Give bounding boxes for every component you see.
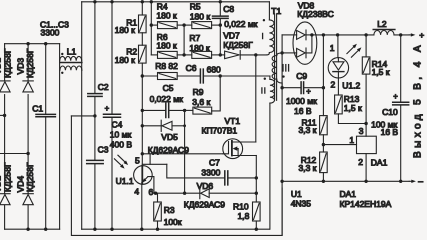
wire DA1 pin1: [323, 144, 356, 146]
label C9 1000мк 16В: [286, 71, 317, 116]
svg-text:1: 1: [330, 43, 335, 53]
capacitor C6: [200, 69, 222, 83]
label R13 1,5к: [344, 94, 362, 113]
resistor R5: [192, 22, 222, 29]
capacitor C9: [280, 82, 325, 94]
svg-text:R3: R3: [164, 205, 175, 215]
svg-text:VD7: VD7: [223, 31, 240, 41]
diode VD8 dual: [282, 22, 317, 64]
svg-text:+: +: [419, 30, 424, 40]
label VT1 КП707В1: [202, 116, 241, 136]
svg-text:3,6 к: 3,6 к: [192, 97, 210, 107]
capacitor C4: [104, 2, 121, 229]
wire primary HV rail: [82, 0, 270, 3]
svg-text:КП707В1: КП707В1: [202, 126, 238, 136]
wire C5R9 node down: [183, 110, 186, 194]
label DA1 pins: [349, 126, 363, 167]
wire clamp left column: [150, 2, 153, 55]
capacitor C3: [87, 116, 104, 229]
resistor R4: [151, 22, 192, 29]
svg-text:180 к: 180 к: [115, 55, 136, 65]
wire output minus: [282, 176, 423, 186]
svg-text:2: 2: [331, 79, 336, 89]
wire bridge column 2: [27, 44, 29, 230]
svg-text:VD6: VD6: [197, 181, 214, 191]
label winding III: [283, 65, 289, 71]
wire bridge minus bus: [5, 228, 60, 231]
output plus arrow: [409, 30, 424, 40]
svg-text:1,5 к: 1,5 к: [344, 103, 362, 113]
label U1.1: [116, 176, 134, 186]
T1 winding III: [272, 35, 285, 88]
svg-text:КД258Г: КД258Г: [223, 40, 253, 50]
op-amp U1.1 phototransistor: [134, 154, 167, 229]
capacitor C10: [393, 35, 409, 183]
resistor R6: [151, 51, 192, 58]
svg-text:T1: T1: [271, 6, 281, 16]
wire C6 to winding II: [220, 75, 270, 77]
T1 winding I: [263, 2, 274, 55]
svg-text:VD3: VD3: [15, 58, 25, 75]
svg-text:+: +: [306, 87, 311, 96]
diode VD3: [23, 81, 33, 92]
diode VD6: [200, 188, 258, 199]
label C1...C3 3300: [40, 19, 69, 37]
svg-text:–: –: [418, 176, 423, 186]
wire secondary common column: [280, 53, 283, 236]
svg-text:16 В: 16 В: [294, 106, 312, 116]
svg-text:+: +: [393, 92, 398, 101]
svg-text:4N35: 4N35: [291, 199, 312, 209]
label C5 0,022мк: [150, 83, 183, 104]
resistor R14: [362, 35, 370, 124]
svg-text:2: 2: [358, 157, 363, 167]
svg-text:L2: L2: [377, 19, 387, 29]
inductor L1: [60, 53, 82, 74]
label R5 180к: [190, 1, 211, 21]
label R3 100к: [164, 205, 182, 227]
label C7 3300: [201, 157, 220, 177]
label C10 100мк 16В: [371, 92, 398, 137]
transistor VT1: [223, 139, 256, 159]
svg-text:3300: 3300: [201, 168, 220, 178]
svg-text:C10: C10: [382, 107, 398, 117]
wire emitter row: [154, 192, 200, 195]
capacitor C7: [167, 164, 258, 185]
svg-text:КД258Г: КД258Г: [25, 48, 35, 78]
diode VD5: [142, 120, 186, 131]
svg-text:10 мк: 10 мк: [110, 130, 132, 140]
svg-text:3: 3: [359, 126, 364, 136]
wire L1 right column: [81, 2, 83, 229]
svg-text:КД258Г: КД258Г: [3, 48, 13, 78]
label C3: [98, 145, 109, 155]
wire AC mid tap: [71, 114, 96, 117]
svg-text:180 к: 180 к: [156, 11, 177, 21]
svg-text:КД258Г: КД258Г: [25, 162, 35, 192]
wire AC input 1: [0, 114, 6, 117]
svg-text:DA1: DA1: [340, 189, 357, 199]
wire primary common bus: [82, 228, 270, 231]
U1.2 light arrows: [347, 44, 362, 57]
label VD2 КД258Г: [3, 162, 13, 192]
svg-text:C9: C9: [296, 71, 307, 81]
svg-text:КР142ЕН19А: КР142ЕН19А: [340, 199, 392, 209]
label R12 3,3к: [299, 155, 317, 173]
label R7 180к: [189, 33, 210, 53]
wire R1R2 column top: [141, 2, 143, 15]
capacitor C8: [213, 2, 229, 55]
capacitor C2: [88, 2, 102, 116]
label VD1 КД258Г: [3, 48, 13, 78]
resistor R2: [139, 45, 147, 63]
svg-text:5: 5: [135, 155, 140, 165]
label VD3 КД258Г: [25, 48, 35, 78]
wire rectifier output to L1: [59, 44, 61, 230]
resistor R9: [185, 76, 221, 114]
diode VD2: [0, 194, 10, 205]
label R14 1,5к: [372, 59, 390, 77]
svg-text:U1: U1: [291, 189, 302, 199]
svg-text:C3: C3: [98, 145, 109, 155]
svg-text:C4: C4: [112, 120, 123, 130]
wire AC input 2: [0, 152, 30, 155]
resistor R13: [335, 95, 368, 125]
label R1 180к: [115, 17, 138, 35]
transformer T1 core: [275, 14, 277, 101]
wire bridge column 1: [4, 44, 6, 230]
label C2: [98, 82, 109, 92]
label VD3: [15, 58, 25, 75]
inductor L2: [373, 30, 395, 35]
svg-text:U1.2: U1.2: [342, 81, 360, 91]
svg-text:3,3 к: 3,3 к: [299, 163, 317, 173]
label C1: [32, 104, 43, 114]
svg-text:400 В: 400 В: [110, 139, 133, 149]
diode VD4: [23, 194, 33, 205]
label DA1: [371, 158, 388, 168]
wire R1-R2: [141, 33, 143, 45]
label C8 0,022мк: [223, 4, 257, 29]
wire clamp mid link: [183, 25, 185, 55]
svg-text:C5: C5: [163, 83, 174, 93]
wire source column: [255, 156, 257, 203]
svg-text:R8 82: R8 82: [155, 61, 178, 71]
svg-text:КД629АС9: КД629АС9: [184, 200, 226, 210]
label U1.1 pins: [134, 155, 153, 197]
label C4 plus: [105, 104, 110, 113]
svg-text:180 к: 180 к: [115, 25, 136, 35]
svg-text:C1: C1: [32, 104, 43, 114]
label T1: [271, 6, 281, 16]
label U1.2: [342, 81, 360, 91]
svg-text:3,3 к: 3,3 к: [299, 125, 317, 135]
resistor R1: [139, 15, 147, 33]
resistor R8: [142, 73, 199, 80]
wire DA1 pin2: [364, 154, 367, 183]
svg-text:1,5 к: 1,5 к: [372, 67, 390, 77]
svg-text:R10: R10: [233, 201, 249, 211]
label VD2: [0, 176, 3, 193]
svg-text:180 к: 180 к: [156, 41, 177, 51]
label VD6 КД629АС9: [184, 181, 226, 209]
svg-text:16 В: 16 В: [381, 127, 399, 137]
svg-text:100к: 100к: [164, 217, 182, 227]
svg-text:1000 мк: 1000 мк: [286, 96, 317, 106]
svg-text:3300: 3300: [41, 28, 60, 38]
label VD7 КД258Г: [223, 31, 253, 51]
U1.1 light arrows: [114, 155, 128, 168]
label VD4: [15, 176, 25, 193]
label winding II: [262, 88, 265, 93]
svg-text:C6: C6: [186, 63, 197, 73]
wire outer ground bus: [71, 116, 282, 235]
resistor R12: [320, 152, 328, 183]
wire bridge plus rail: [5, 42, 60, 45]
wire drain column: [255, 55, 257, 142]
label L2: [377, 19, 387, 29]
label output: [412, 42, 423, 158]
svg-text:C7: C7: [209, 157, 220, 167]
capacitor C5: [142, 103, 186, 117]
svg-text:R9: R9: [193, 87, 204, 97]
svg-text:680: 680: [207, 65, 221, 75]
svg-text:C8: C8: [223, 4, 234, 14]
svg-text:1: 1: [349, 135, 354, 145]
svg-text:180 к: 180 к: [189, 43, 210, 53]
svg-text:U1.1: U1.1: [116, 176, 134, 186]
label R11 3,3к: [299, 118, 317, 136]
label C6 680: [186, 63, 221, 75]
wire secondary plus rail: [316, 33, 409, 36]
svg-text:4: 4: [134, 187, 139, 197]
svg-text:КД238ВС: КД238ВС: [297, 9, 333, 19]
wire divider column top: [322, 35, 324, 116]
label C4 10мк 400В: [110, 120, 133, 150]
resistor R7: [192, 51, 222, 58]
label VD8 КД238ВС: [297, 0, 333, 19]
diode VD1: [0, 81, 10, 92]
svg-text:C2: C2: [98, 82, 109, 92]
op-amp U1.2 LED: [328, 35, 348, 95]
capacitor C1: [36, 44, 55, 230]
resistor R3: [154, 193, 162, 229]
svg-text:VD4: VD4: [15, 176, 25, 193]
label VD4 КД258Г: [25, 162, 35, 192]
label VD5 КД629АС9: [148, 132, 190, 155]
label R6 180к: [156, 32, 177, 50]
svg-text:6: 6: [149, 187, 154, 197]
wire gate node column: [141, 63, 144, 154]
label R9 3,6к: [192, 87, 210, 107]
label R10 1,8: [233, 201, 250, 221]
label R8 82: [155, 61, 178, 71]
diode VD7: [220, 51, 267, 60]
label R4 180к: [156, 1, 177, 20]
label U1.2 pins: [330, 43, 336, 89]
svg-text:+: +: [105, 104, 110, 113]
label VD1: [0, 58, 3, 75]
resistor R10: [253, 202, 261, 229]
svg-text:VT1: VT1: [225, 116, 241, 126]
T1 winding II: [264, 76, 275, 229]
label L1: [67, 46, 77, 56]
svg-text:1,8: 1,8: [238, 211, 250, 221]
svg-text:180 к: 180 к: [190, 11, 211, 21]
wire gate drive: [141, 152, 223, 155]
svg-text:R7: R7: [189, 33, 200, 43]
resistor R11: [320, 116, 328, 152]
label R2 180к: [115, 46, 138, 65]
svg-text:КД258Г: КД258Г: [3, 162, 13, 192]
svg-text:L1: L1: [67, 46, 77, 56]
wire DA1 pin3: [365, 124, 367, 137]
op-amp DA1 box: [357, 136, 377, 153]
svg-text:0,022 мк: 0,022 мк: [224, 19, 257, 29]
svg-text:DA1: DA1: [371, 158, 388, 168]
svg-text:R5: R5: [190, 1, 201, 11]
svg-text:0,022 мк: 0,022 мк: [150, 94, 183, 104]
svg-text:Выход 5 В, 4 А: Выход 5 В, 4 А: [412, 42, 423, 158]
label U1 4N35: [291, 189, 312, 209]
svg-text:VD5: VD5: [161, 132, 178, 142]
label winding I: [262, 33, 264, 38]
label DA1 КР142ЕН19А: [340, 189, 392, 209]
